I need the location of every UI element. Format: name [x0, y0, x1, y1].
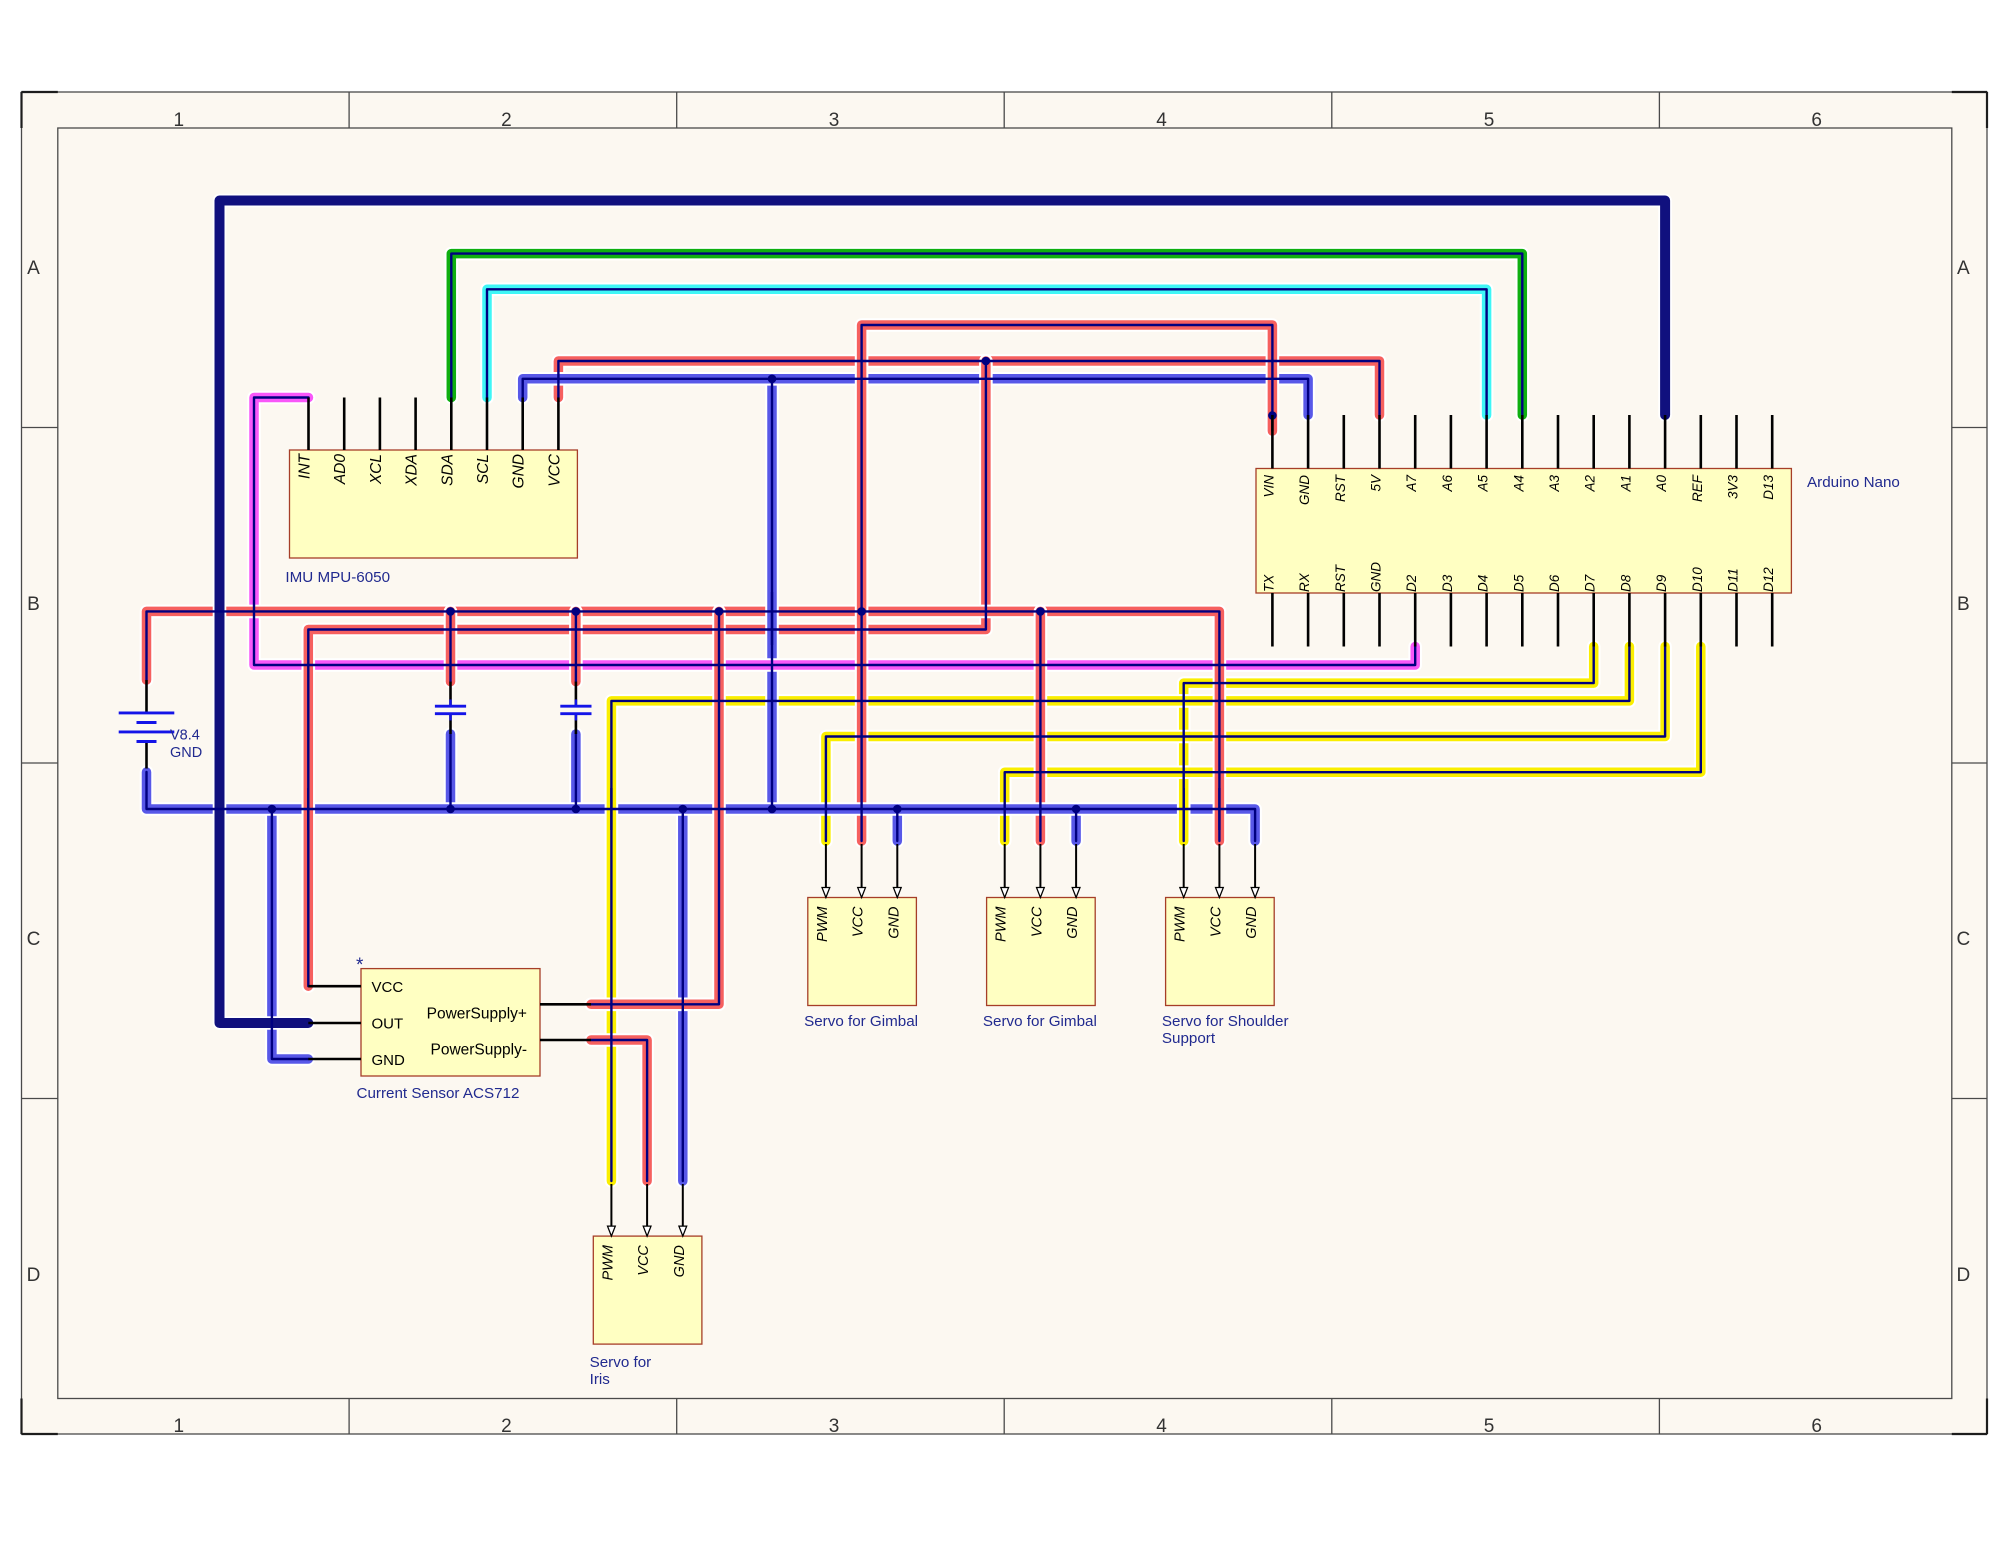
svg-text:GND: GND	[886, 907, 902, 939]
svg-text:A1: A1	[1618, 475, 1633, 493]
svg-text:D2: D2	[1404, 574, 1419, 592]
svg-text:1: 1	[174, 110, 185, 131]
svg-text:5: 5	[1484, 1416, 1495, 1437]
svg-text:VCC: VCC	[1029, 906, 1045, 937]
svg-text:D: D	[1957, 1265, 1971, 1286]
svg-text:C: C	[27, 929, 41, 950]
svg-text:4: 4	[1156, 1416, 1167, 1437]
svg-text:VCC: VCC	[546, 453, 563, 487]
svg-text:Servo for: Servo for	[590, 1354, 652, 1371]
svg-text:RST: RST	[1333, 473, 1348, 502]
svg-text:VIN: VIN	[1261, 475, 1276, 498]
svg-text:2: 2	[501, 1416, 512, 1437]
svg-text:PWM: PWM	[600, 1244, 616, 1280]
svg-text:GND: GND	[170, 745, 202, 761]
svg-text:Iris: Iris	[590, 1371, 611, 1388]
svg-text:A4: A4	[1511, 475, 1526, 493]
svg-text:Current Sensor ACS712: Current Sensor ACS712	[357, 1085, 520, 1102]
svg-text:Servo for Gimbal: Servo for Gimbal	[983, 1013, 1097, 1030]
svg-text:VCC: VCC	[372, 979, 404, 996]
svg-text:A7: A7	[1404, 475, 1419, 493]
svg-text:VCC: VCC	[636, 1245, 652, 1276]
svg-text:INT: INT	[297, 452, 314, 479]
svg-text:SDA: SDA	[439, 454, 456, 486]
svg-text:D12: D12	[1761, 567, 1776, 592]
svg-text:3: 3	[829, 110, 840, 131]
svg-text:B: B	[27, 594, 40, 615]
svg-text:D10: D10	[1690, 567, 1705, 592]
svg-text:D13: D13	[1761, 475, 1776, 500]
svg-text:REF: REF	[1690, 474, 1705, 502]
svg-text:AD0: AD0	[332, 454, 349, 486]
svg-text:GND: GND	[372, 1052, 406, 1069]
svg-text:A2: A2	[1583, 475, 1598, 493]
svg-text:XCL: XCL	[368, 454, 385, 485]
svg-text:D: D	[27, 1265, 41, 1286]
svg-text:5V: 5V	[1369, 473, 1384, 492]
svg-text:V8.4: V8.4	[170, 728, 200, 744]
svg-text:4: 4	[1156, 110, 1167, 131]
svg-text:VCC: VCC	[1208, 906, 1224, 937]
svg-text:*: *	[356, 955, 364, 976]
svg-text:D3: D3	[1440, 574, 1455, 592]
svg-text:Support: Support	[1162, 1030, 1216, 1047]
svg-text:RST: RST	[1333, 563, 1348, 592]
svg-text:A5: A5	[1476, 475, 1491, 493]
svg-text:3V3: 3V3	[1726, 475, 1741, 500]
svg-text:D11: D11	[1726, 568, 1741, 592]
svg-text:1: 1	[174, 1416, 185, 1437]
svg-text:D8: D8	[1618, 574, 1633, 592]
svg-text:A6: A6	[1440, 475, 1455, 493]
svg-text:PWM: PWM	[815, 906, 831, 942]
svg-text:A0: A0	[1654, 475, 1669, 493]
svg-text:A: A	[27, 258, 40, 279]
svg-text:PWM: PWM	[1173, 906, 1189, 942]
svg-text:B: B	[1957, 594, 1970, 615]
svg-text:OUT: OUT	[372, 1016, 404, 1033]
svg-text:RX: RX	[1297, 572, 1312, 592]
svg-text:PowerSupply-: PowerSupply-	[431, 1041, 528, 1058]
svg-text:GND: GND	[511, 454, 528, 488]
svg-text:5: 5	[1484, 110, 1495, 131]
svg-text:GND: GND	[672, 1245, 688, 1277]
svg-text:D7: D7	[1583, 574, 1598, 592]
svg-text:6: 6	[1811, 110, 1822, 131]
svg-text:SCL: SCL	[475, 454, 492, 484]
svg-text:Servo for Shoulder: Servo for Shoulder	[1162, 1013, 1289, 1030]
svg-text:A3: A3	[1547, 475, 1562, 493]
svg-text:GND: GND	[1297, 475, 1312, 505]
svg-text:C: C	[1957, 929, 1971, 950]
svg-text:Arduino Nano: Arduino Nano	[1807, 474, 1900, 491]
svg-text:XDA: XDA	[404, 454, 421, 487]
svg-text:D5: D5	[1511, 574, 1526, 592]
svg-text:GND: GND	[1244, 907, 1260, 939]
svg-text:GND: GND	[1065, 907, 1081, 939]
svg-text:IMU MPU-6050: IMU MPU-6050	[285, 569, 390, 586]
svg-text:D4: D4	[1476, 575, 1491, 592]
svg-text:3: 3	[829, 1416, 840, 1437]
svg-text:PowerSupply+: PowerSupply+	[427, 1006, 527, 1023]
svg-text:GND: GND	[1369, 562, 1384, 592]
svg-text:D6: D6	[1547, 574, 1562, 592]
svg-text:D9: D9	[1654, 574, 1669, 592]
svg-text:6: 6	[1811, 1416, 1822, 1437]
svg-text:PWM: PWM	[994, 906, 1010, 942]
svg-text:A: A	[1957, 258, 1970, 279]
svg-text:TX: TX	[1261, 574, 1276, 592]
svg-text:Servo for Gimbal: Servo for Gimbal	[804, 1013, 918, 1030]
svg-text:2: 2	[501, 110, 512, 131]
svg-text:VCC: VCC	[851, 906, 867, 937]
